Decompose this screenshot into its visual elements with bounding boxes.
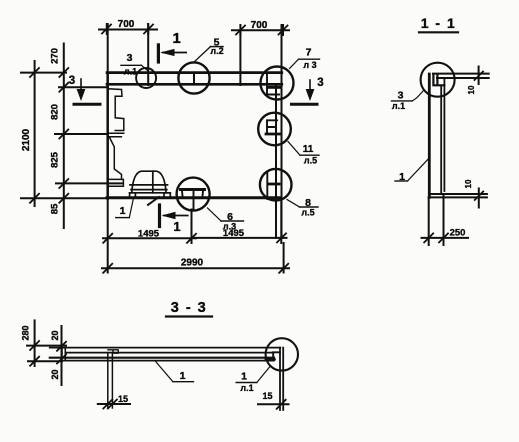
- detail circle 5/л.2 on top chord: [178, 62, 209, 93]
- extension verticals bottom dims: [107, 199, 109, 273]
- section marker 1 top: bar: [157, 45, 160, 62]
- svg-text:л.1: л.1: [124, 67, 137, 77]
- dimension 700 left: dim line: [99, 24, 157, 34]
- label 5/л.2: [194, 36, 224, 62]
- svg-text:3: 3: [317, 77, 323, 89]
- 3-3 left dim col 20/20: [57, 326, 66, 385]
- svg-text:270: 270: [50, 48, 61, 64]
- left dim column intermediate: vertical line: [59, 44, 68, 229]
- svg-text:1495: 1495: [223, 228, 245, 239]
- title 3-3 underline: [166, 315, 212, 317]
- svg-text:15: 15: [262, 391, 272, 401]
- dimension 2990: [102, 264, 289, 273]
- dimension 1495 left: [103, 234, 196, 243]
- svg-text:1: 1: [180, 370, 186, 382]
- svg-text:1: 1: [120, 205, 126, 217]
- svg-text:11: 11: [303, 144, 314, 155]
- svg-text:820: 820: [50, 104, 61, 120]
- 1-1 dim 250 extensions: [428, 197, 430, 245]
- svg-text:85: 85: [50, 203, 61, 214]
- 1-1 corner hook detail: [433, 76, 444, 86]
- 1-1 dim 250: [422, 233, 469, 242]
- svg-text:3 - 3: 3 - 3: [171, 300, 208, 316]
- 3-3 label 1 (left): [155, 361, 193, 382]
- section marker 1 bottom: arrow: [162, 212, 188, 220]
- svg-text:700: 700: [251, 20, 268, 31]
- svg-text:1: 1: [241, 371, 247, 383]
- frame left member outer edge: [106, 73, 109, 199]
- left dim column 2100: vertical line: [30, 61, 39, 206]
- 1-1 web verticals: [429, 74, 444, 197]
- extension line from 700-right down to frame: [239, 30, 241, 85]
- extension line from 700-left down to frame: [147, 24, 149, 85]
- svg-text:1: 1: [173, 219, 180, 234]
- svg-text:1 - 1: 1 - 1: [421, 15, 457, 31]
- 3-3 label 1/л.1 (right): [236, 367, 270, 394]
- detail circle 6/л.3 on bottom chord: [177, 178, 210, 211]
- 3-3 middle rib verticals: [108, 353, 113, 408]
- svg-text:10: 10: [467, 85, 476, 94]
- svg-text:3: 3: [127, 52, 133, 64]
- stud detail inside circle 6: [181, 188, 205, 191]
- frame right member double lines: [276, 73, 282, 238]
- 1-1 thickness tick bottom: [475, 189, 484, 208]
- label 8/л.5: [287, 197, 318, 218]
- svg-text:2100: 2100: [21, 128, 32, 151]
- detail circle 7/л.3 top right corner: [261, 67, 294, 100]
- dim connector y=134: [55, 133, 108, 135]
- svg-text:л.5: л.5: [301, 208, 314, 218]
- frame left member inner profile: [108, 89, 124, 186]
- 1-1 thickness tick top: [475, 67, 484, 85]
- svg-text:7: 7: [306, 47, 312, 59]
- 3-3 right corner hook inside circle: [266, 352, 281, 359]
- section marker 3 left: arrow down: [74, 79, 100, 104]
- frame top chord: [107, 73, 282, 85]
- 1-1 top flange: [433, 74, 489, 78]
- title 1-1 underline: [419, 31, 458, 33]
- bracket detail inside circle 11: [267, 120, 277, 134]
- svg-text:1: 1: [173, 30, 181, 47]
- label 3/л.1 plan: [121, 52, 148, 77]
- bracket detail inside circle 8: [266, 172, 268, 199]
- 3-3 right edge verticals: [280, 348, 283, 410]
- dim connector y=72.7: [21, 72, 66, 74]
- svg-text:л 3: л 3: [303, 60, 316, 70]
- svg-text:280: 280: [21, 325, 31, 340]
- svg-text:1495: 1495: [138, 229, 160, 240]
- corner detail inside circle 7: [267, 75, 279, 95]
- dimension 700 right: dim line: [232, 25, 289, 35]
- svg-text:700: 700: [118, 19, 135, 30]
- label 6/л.3: [208, 208, 244, 232]
- 1-1 label 1: [395, 159, 429, 184]
- section marker 1 bottom: bar: [158, 205, 161, 227]
- frame bottom chord: [107, 196, 281, 199]
- svg-text:20: 20: [50, 330, 60, 340]
- dim connector y=198.3 (bottom, long): [21, 197, 108, 199]
- label 7/л.3: [290, 47, 320, 71]
- 1-1 detail circle: [421, 63, 455, 97]
- svg-text:3: 3: [69, 75, 75, 87]
- svg-text:3: 3: [398, 90, 404, 102]
- label 11/л.5: [288, 142, 319, 166]
- svg-text:л.5: л.5: [304, 156, 317, 166]
- 3-3 deck lines: [50, 348, 280, 361]
- section marker 1 top: arrow: [160, 49, 186, 56]
- label 1 bottom left of plan: [116, 199, 134, 218]
- 3-3 middle rib hook: [108, 350, 118, 353]
- svg-text:л.2: л.2: [210, 46, 223, 56]
- 3-3 dim 15 left: [98, 400, 130, 409]
- 1-1 bottom flange: [429, 194, 487, 197]
- svg-text:15: 15: [118, 394, 128, 404]
- short diagonal below hat: [148, 197, 159, 205]
- 3-3 left edge verticals: [62, 348, 65, 361]
- svg-text:250: 250: [450, 228, 466, 239]
- 3-3 dim 15 right: [258, 400, 289, 409]
- svg-text:л.1: л.1: [240, 383, 253, 393]
- section marker 3 right: arrow down: [292, 80, 318, 104]
- svg-text:20: 20: [50, 369, 60, 379]
- tick inside circle 5: [193, 74, 195, 84]
- 1-1 label 3/л.1: [392, 90, 424, 112]
- 3-3 detail circle right: [266, 338, 298, 370]
- svg-text:10: 10: [464, 179, 473, 188]
- detail circle 11/л.5 right middle: [258, 113, 291, 146]
- svg-text:л.1: л.1: [392, 101, 405, 111]
- hat stiffener on bottom chord: [130, 171, 171, 196]
- svg-text:2990: 2990: [181, 258, 204, 269]
- detail circle small (3/л.1) on top chord: [136, 68, 156, 88]
- detail circle 8/л.5 right lower: [260, 169, 292, 201]
- dim connector y=87.2: [59, 86, 108, 88]
- 3-3 left dim col 280: [27, 320, 66, 366]
- dim connector y=183.4: [56, 182, 123, 184]
- dimension 1495 right: [192, 233, 287, 242]
- svg-text:825: 825: [50, 151, 61, 168]
